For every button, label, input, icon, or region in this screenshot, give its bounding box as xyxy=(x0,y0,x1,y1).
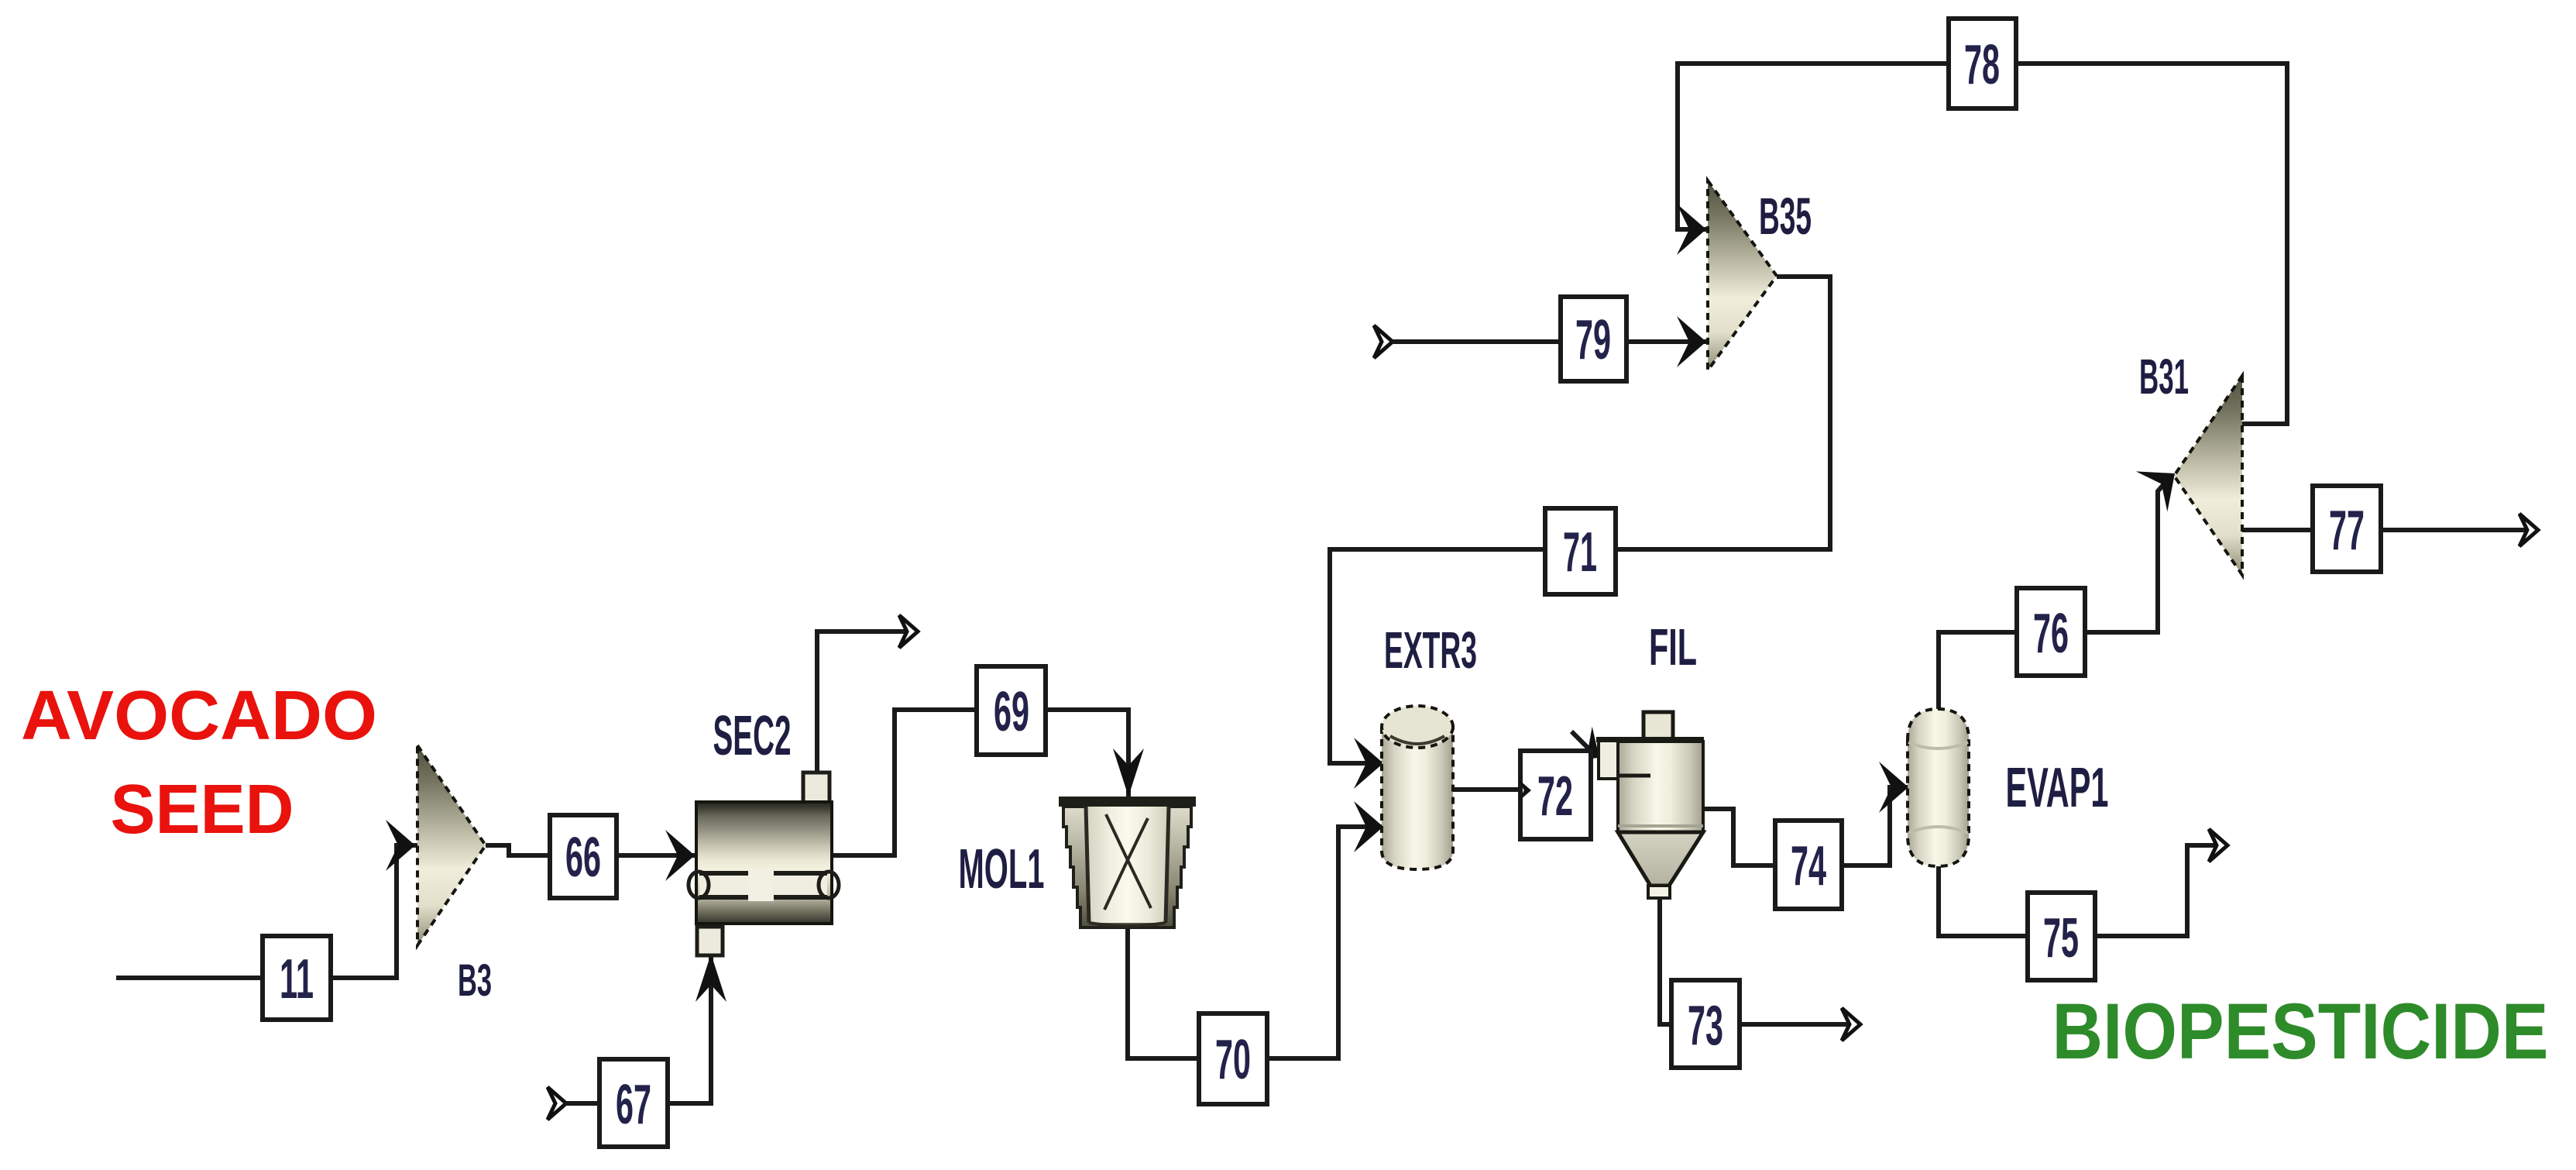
mixer B35 xyxy=(1708,181,1777,370)
mixer B3 xyxy=(417,745,486,945)
wire 79 to B35 xyxy=(1392,316,1708,367)
stream 78 xyxy=(1949,19,2016,108)
wire EVAP1 top to 76 to B31 xyxy=(1939,453,2190,709)
evaporator EVAP1 xyxy=(1908,709,1969,866)
svg-text:67: 67 xyxy=(616,1074,651,1136)
stream 71 xyxy=(1545,508,1616,594)
svg-text:72: 72 xyxy=(1537,766,1573,828)
wire MOL1 to 70 to EXTR3 xyxy=(1128,801,1384,1058)
arrow into stream 72 xyxy=(1519,779,1531,801)
dryer SEC2 xyxy=(689,773,839,955)
wire SEC2 to 69 to MOL1 xyxy=(832,710,1144,855)
wire 11 to B3 xyxy=(331,820,418,978)
svg-text:70: 70 xyxy=(1215,1029,1251,1091)
svg-text:EXTR3: EXTR3 xyxy=(1384,621,1477,680)
wire B3 to 66 to SEC2 xyxy=(486,830,696,881)
stream 79 xyxy=(1561,297,1626,381)
svg-text:75: 75 xyxy=(2043,907,2079,969)
wire feed to 11 xyxy=(116,976,263,980)
label AVOCADO SEED xyxy=(21,677,377,848)
svg-text:11: 11 xyxy=(280,948,314,1010)
wire EXTR3 to 72 xyxy=(1453,787,1520,792)
wire 72 to FIL xyxy=(1568,727,1612,775)
wire FIL to 74 to EVAP1 xyxy=(1703,762,1908,865)
svg-text:EVAP1: EVAP1 xyxy=(2006,757,2109,819)
extractor EXTR3 xyxy=(1382,706,1453,869)
splitter B31 xyxy=(2174,376,2242,575)
stream 70 xyxy=(1199,1013,1267,1104)
svg-text:BIOPESTICIDE: BIOPESTICIDE xyxy=(2052,987,2549,1075)
svg-text:66: 66 xyxy=(565,827,601,889)
stream 77 xyxy=(2313,486,2381,572)
wire EVAP1 bottom to 75 to outlet xyxy=(1939,829,2227,936)
svg-text:78: 78 xyxy=(1964,34,2000,96)
svg-text:AVOCADO: AVOCADO xyxy=(21,677,377,755)
stream 67 xyxy=(599,1059,668,1147)
svg-text:B3: B3 xyxy=(458,955,492,1006)
svg-text:71: 71 xyxy=(1563,521,1597,583)
wire feed to 67 xyxy=(565,1101,599,1106)
svg-text:B35: B35 xyxy=(1759,188,1812,246)
svg-text:FIL: FIL xyxy=(1649,618,1697,676)
svg-text:69: 69 xyxy=(994,681,1029,743)
filter FIL xyxy=(1596,712,1704,898)
wire B31 to 78 to B35 xyxy=(1677,64,2287,424)
label BIOPESTICIDE xyxy=(2052,987,2549,1075)
svg-text:73: 73 xyxy=(1688,995,1723,1057)
stream 69 xyxy=(977,666,1046,755)
stream 72 xyxy=(1520,751,1591,839)
svg-text:SEED: SEED xyxy=(111,771,294,848)
svg-text:79: 79 xyxy=(1575,309,1611,371)
stream 74 xyxy=(1775,821,1842,909)
stream 66 xyxy=(550,815,617,898)
svg-text:MOL1: MOL1 xyxy=(959,838,1045,900)
stream 75 xyxy=(2028,893,2095,980)
svg-text:76: 76 xyxy=(2033,603,2069,665)
stream 76 xyxy=(2017,588,2085,676)
feed arrow stream 79 xyxy=(1374,325,1393,358)
wire 67 to SEC2 bottom xyxy=(668,954,726,1103)
svg-text:74: 74 xyxy=(1791,835,1826,897)
wire B31 to 77 to outlet xyxy=(2242,514,2538,546)
svg-text:B31: B31 xyxy=(2139,349,2189,404)
wire SEC2 top outlet xyxy=(817,615,918,773)
wire B35 to 71 to EXTR3 xyxy=(1330,277,1830,789)
stream 11 xyxy=(263,936,331,1020)
stream 73 xyxy=(1671,980,1740,1068)
svg-text:SEC2: SEC2 xyxy=(713,705,792,767)
svg-text:77: 77 xyxy=(2329,500,2365,562)
wire FIL bottom to 73 to outlet xyxy=(1660,899,1860,1041)
feed arrow stream 67 xyxy=(548,1087,566,1120)
crusher MOL1 xyxy=(1059,797,1196,927)
